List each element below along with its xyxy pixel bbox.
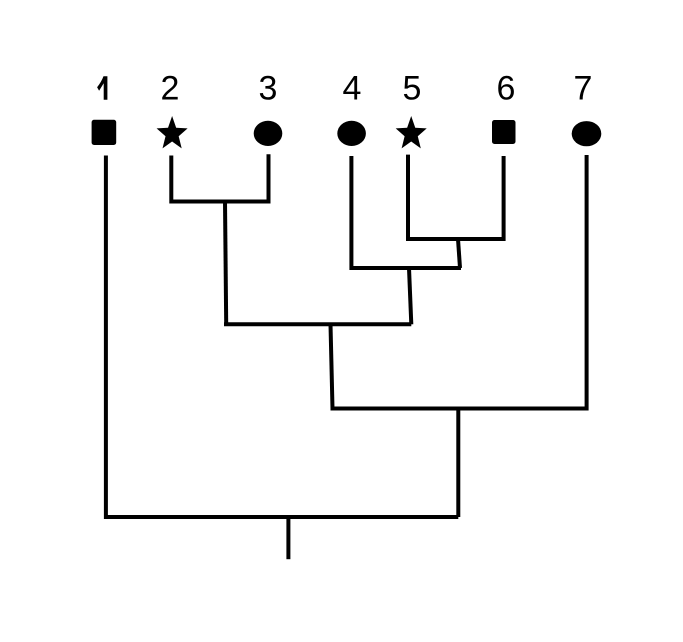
svg-text:3: 3 xyxy=(259,70,278,108)
svg-text:5: 5 xyxy=(403,70,422,108)
svg-text:6: 6 xyxy=(497,70,516,108)
svg-text:4: 4 xyxy=(343,70,362,108)
svg-text:2: 2 xyxy=(161,70,180,108)
svg-text:7: 7 xyxy=(574,70,593,108)
